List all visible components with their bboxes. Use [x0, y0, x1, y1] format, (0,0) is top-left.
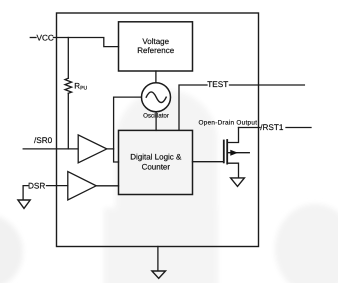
wire Voltage Reference to oscillator [155, 71, 157, 83]
svg-text:VCC: VCC [37, 33, 54, 42]
svg-text:Counter: Counter [142, 163, 171, 172]
svg-text:DSR: DSR [28, 182, 45, 191]
wire DSR ground drop [23, 186, 28, 200]
wire VCC to Voltage Reference [54, 38, 119, 47]
buffer A2 DSR [68, 172, 96, 200]
wire Digital Logic to MOSFET gate [193, 161, 224, 163]
wire /RST1 right [286, 127, 311, 129]
transistor N1 gate bar [223, 141, 225, 163]
oscillator sine [146, 92, 166, 103]
outer box [57, 13, 259, 247]
watermark capsule center [104, 90, 218, 283]
ground DSR [18, 200, 30, 208]
transistor N1 channel bar [226, 140, 228, 164]
wire oscillator to node at buffer output [114, 97, 142, 149]
ground MOSFET source [231, 178, 245, 187]
oscillator circle [142, 83, 171, 112]
box U2 Digital Logic & Counter [119, 130, 193, 194]
wire DSR input [47, 185, 68, 187]
wire /SR0 input [23, 148, 78, 150]
wire buffer A2 output to Digital Logic [96, 185, 119, 187]
watermark circle bottom-left [0, 214, 23, 283]
ground bottom [152, 271, 166, 278]
wire VCC junction to resistor [67, 38, 69, 79]
transistor N1 source stub [227, 163, 238, 177]
svg-text:/SR0: /SR0 [34, 136, 53, 145]
svg-text:Digital Logic &: Digital Logic & [130, 152, 182, 161]
transistor N1 body arrow [230, 150, 238, 156]
wire resistor to /SR0 line [67, 93, 69, 149]
svg-text:Oscillator: Oscillator [143, 112, 169, 119]
wire VCC stub [30, 37, 36, 39]
box U1 Voltage Reference [119, 22, 193, 71]
wire buffer A1 output to Digital Logic [107, 149, 119, 162]
wire oscillator to Digital Logic [155, 112, 157, 131]
wire bottom ground drop [157, 247, 159, 271]
transistor N1 drain stub [227, 128, 238, 143]
transistor N1 body line [227, 152, 249, 154]
svg-text:TEST: TEST [207, 80, 228, 89]
resistor RPU [65, 78, 72, 93]
svg-text:Voltage: Voltage [142, 37, 169, 46]
wire TEST tap to Digital Logic [179, 85, 207, 130]
wire /RST1 from drain [239, 127, 261, 129]
watermark circle bottom-right [275, 204, 338, 283]
svg-text:Open-Drain Output: Open-Drain Output [199, 120, 258, 127]
buffer A1 /SR0 [78, 135, 107, 163]
svg-text:/RST1: /RST1 [260, 123, 284, 132]
svg-text:Reference: Reference [137, 46, 174, 55]
wire TEST to right [230, 84, 305, 86]
